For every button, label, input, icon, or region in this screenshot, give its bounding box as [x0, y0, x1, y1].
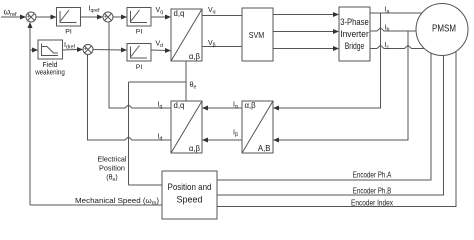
- arrowhead Vd into dq1: [165, 48, 171, 53]
- wire Ialpha A,B to dq2: [206, 107, 242, 109]
- svg-text:PMSM: PMSM: [432, 24, 456, 35]
- svg-text:Bridge: Bridge: [345, 41, 365, 52]
- node omega_ref input wire: [1, 16, 21, 18]
- wire theta_e into position block: [129, 184, 163, 186]
- arrowhead Iqref into J2: [97, 15, 103, 20]
- svg-text:weakening: weakening: [34, 68, 64, 77]
- wire PI3 to dq1 (Vd): [151, 49, 166, 52]
- svg-text:d,q: d,q: [174, 101, 185, 110]
- PI controller box PI2: [127, 8, 151, 27]
- summing junction J2: [103, 12, 113, 22]
- wire mechanical speed horizontal: [30, 204, 162, 206]
- svg-text:d,q: d,q: [174, 9, 185, 18]
- summing junction J1: [26, 12, 36, 22]
- svg-text:Ib: Ib: [385, 25, 390, 34]
- wire Id feedback dq2 to J3: [88, 55, 172, 141]
- svg-text:Ia: Ia: [385, 7, 390, 16]
- wire phase Ia inverter to PMSM: [370, 12, 422, 14]
- svg-text:Position: Position: [99, 163, 125, 172]
- field weakening block: [38, 40, 63, 59]
- arrowhead Idref into J3: [77, 47, 83, 52]
- transform block dq2 alpha,beta to d,q: [171, 101, 202, 153]
- SVM block: [242, 8, 273, 61]
- wire PI2 to dq1 (Vq): [151, 16, 166, 18]
- wire ground-feedback to field weakening: [30, 49, 33, 51]
- svg-text:α,β: α,β: [189, 52, 201, 61]
- wire SVM to inverter top: [273, 14, 334, 16]
- svg-text:Speed: Speed: [177, 195, 203, 206]
- PI controller box PI3: [127, 44, 151, 62]
- arrowhead SVM out top into inverter: [333, 12, 339, 17]
- wire theta_e vertical from position block: [128, 82, 130, 185]
- svg-text:Encoder Ph.B: Encoder Ph.B: [353, 187, 392, 196]
- wire encoder phase B: [217, 56, 444, 196]
- wire mechanical speed vertical feedback: [29, 24, 31, 206]
- wire Ibeta A,B to dq2: [206, 139, 242, 141]
- wire Ib current tap vertical: [277, 31, 408, 140]
- wire encoder phase A: [217, 53, 431, 180]
- wire Valpha dq1 to SVM: [202, 15, 242, 17]
- svg-text:(θe): (θe): [106, 175, 117, 184]
- svg-text:Encoder Index: Encoder Index: [351, 199, 393, 208]
- svg-text:Position and: Position and: [168, 182, 212, 193]
- svg-text:Encoder Ph.A: Encoder Ph.A: [353, 171, 392, 180]
- svg-text:θe: θe: [190, 80, 197, 90]
- wire encoder index: [217, 52, 456, 207]
- wire SVM to inverter bottom: [273, 48, 334, 50]
- wire theta_e between dq1 and dq2: [185, 61, 187, 101]
- wire PI1 to J2 (Iqref): [81, 16, 99, 18]
- position and speed block: [162, 171, 217, 219]
- svg-text:Vα: Vα: [208, 7, 216, 16]
- arrowhead Ialpha into dq2: [202, 106, 208, 111]
- arrowhead into PI3: [121, 48, 127, 53]
- svg-text:Id: Id: [158, 134, 163, 143]
- svg-text:Mechanical Speed (ωm): Mechanical Speed (ωm): [75, 196, 159, 207]
- svg-text:Electrical: Electrical: [98, 154, 127, 163]
- arrowhead SVM out bottom into inverter: [333, 46, 339, 51]
- 3-phase inverter bridge block: [339, 7, 370, 61]
- wire J1 to PI1: [36, 16, 51, 18]
- svg-text:α,β: α,β: [245, 101, 257, 110]
- wire phase Ic inverter to PMSM with two hops: [370, 45, 424, 48]
- svg-text:Iqref: Iqref: [89, 6, 100, 15]
- svg-text:Iβ: Iβ: [233, 130, 238, 139]
- PMSM motor circle: [416, 4, 468, 56]
- svg-text:PI: PI: [65, 29, 72, 36]
- svg-text:SVM: SVM: [249, 30, 265, 40]
- svg-text:Idref: Idref: [64, 42, 75, 51]
- svg-text:Iq: Iq: [158, 102, 163, 111]
- arrowhead speed feedback into J1: [28, 22, 33, 28]
- svg-text:Iα: Iα: [233, 102, 238, 111]
- wire J3 to PI3: [93, 49, 122, 52]
- arrowhead Ib tap into A,B block: [273, 138, 279, 143]
- PI controller box PI1: [57, 8, 81, 27]
- svg-text:PI: PI: [136, 64, 143, 71]
- arrowhead into PI2: [121, 15, 127, 20]
- svg-text:3-Phase: 3-Phase: [340, 17, 369, 28]
- transform block dq1 d,q to alpha,beta: [171, 9, 202, 61]
- arrowhead omega_ref into J1: [20, 15, 26, 20]
- arrowhead Vq into dq1: [165, 15, 171, 20]
- wire J2 to PI2: [113, 16, 122, 18]
- wire SVM to inverter middle: [273, 31, 334, 33]
- svg-text:Vd: Vd: [156, 41, 164, 50]
- arrowhead into PI1: [51, 15, 57, 20]
- arrowhead into field weakening: [32, 48, 38, 53]
- arrowhead Ia tap into A,B block: [273, 106, 279, 111]
- transform block A,B to alpha,beta: [242, 101, 273, 153]
- svg-text:Ic: Ic: [385, 42, 390, 51]
- wire Ia current tap vertical: [277, 13, 381, 108]
- wire theta_e horizontal run: [129, 81, 187, 83]
- svg-text:Inverter: Inverter: [340, 29, 369, 40]
- svg-text:α,β: α,β: [189, 144, 201, 153]
- wire Iq feedback dq2 to J2: [109, 23, 171, 109]
- svg-text:Vq: Vq: [156, 7, 164, 16]
- wire FW to J3 (Idref): [63, 49, 79, 52]
- arrowhead Ibeta into dq2: [202, 138, 208, 143]
- wire Vbeta dq1 to SVM: [202, 46, 242, 48]
- svg-text:ωref: ωref: [4, 7, 18, 19]
- svg-text:PI: PI: [136, 29, 143, 36]
- wire phase Ib inverter to PMSM with hop: [370, 28, 416, 31]
- summing junction J3: [83, 45, 93, 55]
- arrowhead SVM out middle into inverter: [333, 29, 339, 34]
- svg-text:Vβ: Vβ: [208, 40, 216, 49]
- svg-text:A,B: A,B: [258, 144, 271, 153]
